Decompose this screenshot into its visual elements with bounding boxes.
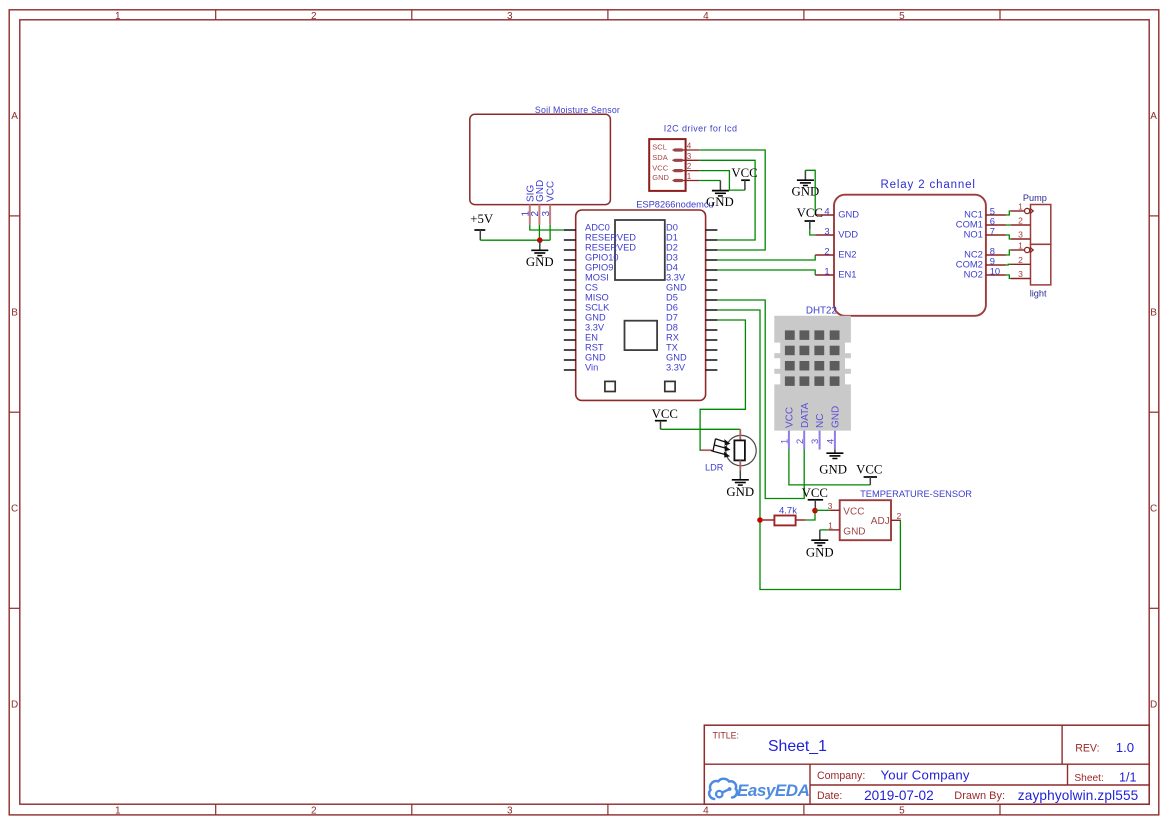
- svg-text:3: 3: [507, 11, 513, 22]
- svg-text:Relay 2 channel: Relay 2 channel: [881, 179, 976, 191]
- svg-text:SCL: SCL: [652, 143, 667, 152]
- ESP pin left Vin: [564, 362, 598, 372]
- pump/light pin 2: [1011, 216, 1031, 226]
- ground flag above relay: [792, 170, 820, 198]
- svg-text:3: 3: [687, 152, 692, 161]
- svg-text:7: 7: [990, 225, 995, 236]
- svg-text:2: 2: [824, 245, 829, 256]
- svg-text:3.3V: 3.3V: [666, 362, 686, 372]
- svg-text:A: A: [11, 111, 18, 122]
- svg-text:EN: EN: [585, 332, 598, 342]
- soil sensor pin 1 SIG: [521, 185, 537, 225]
- svg-text:1: 1: [687, 172, 692, 181]
- pump/light pin 3: [1011, 230, 1031, 240]
- ESP pin right TX: [666, 342, 717, 352]
- svg-text:B: B: [1150, 307, 1157, 318]
- svg-text:MISO: MISO: [585, 292, 609, 302]
- wire relay GND pin4 to ground flag: [805, 170, 815, 215]
- temp sensor pin 2 ADJ: [891, 511, 902, 521]
- I2C pin 3 SDA: [652, 152, 699, 162]
- wire NO1 to Pump 3: [1006, 235, 1011, 239]
- svg-text:GND: GND: [652, 173, 669, 182]
- relay pin 7 NO1: [964, 225, 1006, 239]
- svg-text:3: 3: [828, 501, 833, 511]
- svg-text:2: 2: [897, 511, 902, 521]
- relay pin 1 EN1: [815, 265, 856, 279]
- relay pin 6 COM1: [956, 215, 1006, 229]
- svg-text:GND: GND: [838, 208, 859, 219]
- temp sensor pin 1: [828, 521, 840, 531]
- svg-text:1: 1: [824, 265, 829, 276]
- svg-text:VCC: VCC: [785, 407, 796, 428]
- svg-text:B: B: [11, 307, 18, 318]
- ESP pin right GND: [666, 352, 717, 362]
- I2C pin 4 SCL: [652, 142, 699, 152]
- pump/light pin 1: [1011, 202, 1033, 214]
- svg-text:Your Company: Your Company: [881, 768, 970, 783]
- +5V power flag: [470, 212, 494, 240]
- svg-text:EN1: EN1: [838, 268, 856, 279]
- svg-text:3: 3: [1018, 269, 1023, 279]
- I2C pin 1 GND: [652, 172, 699, 182]
- wire ESP D4 to relay EN1: [717, 270, 815, 275]
- resistor R 4.7k: [761, 505, 805, 525]
- wire resistor right to VCC node: [805, 510, 815, 520]
- ESP pin left RESERVED: [564, 242, 636, 252]
- ESP pin right D0: [666, 222, 717, 232]
- wire COM1 to Pump 2: [1006, 224, 1011, 226]
- svg-text:VCC: VCC: [652, 163, 668, 172]
- svg-text:RST: RST: [585, 342, 604, 352]
- relay pin 5 NC1: [964, 205, 1006, 219]
- wire soil SIG to ESP ADC0: [530, 225, 564, 230]
- ESP pin right D7: [666, 312, 717, 322]
- svg-text:GND: GND: [726, 485, 754, 499]
- svg-text:3: 3: [541, 211, 552, 217]
- svg-text:VCC: VCC: [652, 407, 678, 421]
- wire NC2 to light 1: [1006, 250, 1011, 255]
- svg-text:D1: D1: [666, 232, 678, 242]
- ESP pin right 3.3V: [666, 362, 717, 372]
- EasyEDA logo: [709, 779, 809, 800]
- ESP pin left SCLK: [564, 302, 610, 312]
- svg-text:D5: D5: [666, 292, 678, 302]
- title block: [704, 725, 1149, 804]
- svg-text:GND: GND: [806, 546, 834, 560]
- wire I2C SCL to ESP D2: [699, 150, 765, 250]
- svg-text:4: 4: [825, 439, 836, 444]
- svg-text:LDR: LDR: [705, 462, 724, 472]
- svg-text:GND: GND: [535, 180, 546, 202]
- svg-text:DATA: DATA: [800, 402, 811, 428]
- svg-text:4: 4: [703, 806, 709, 817]
- ground flag below DHT: [819, 450, 847, 477]
- svg-text:4: 4: [703, 11, 709, 22]
- svg-text:GND: GND: [843, 526, 865, 537]
- ESP pin left EN: [564, 332, 598, 342]
- pump/light pin 3: [1011, 269, 1031, 279]
- svg-text:RESERVED: RESERVED: [585, 232, 636, 242]
- relay pin 8 NC2: [964, 245, 1006, 259]
- svg-text:GPIO10: GPIO10: [585, 252, 619, 262]
- wire DHT DATA to ESP D5: [717, 300, 804, 499]
- wire VCC flag to LDR top: [661, 428, 741, 430]
- connector I2C driver for lcd: [649, 124, 737, 191]
- relay pin 10 NO2: [964, 265, 1006, 279]
- svg-text:5: 5: [899, 806, 905, 817]
- svg-text:RESERVED: RESERVED: [585, 242, 636, 252]
- svg-text:Pump: Pump: [1023, 193, 1047, 203]
- wire DHT VCC to VCC flag: [789, 450, 870, 485]
- ESP pin right RX: [666, 332, 717, 342]
- connector light: [1030, 244, 1051, 298]
- wire I2C SDA to ESP D1: [699, 160, 755, 240]
- svg-text:Date:: Date:: [817, 790, 842, 802]
- svg-text:2019-07-02: 2019-07-02: [864, 788, 934, 803]
- svg-text:GND: GND: [585, 352, 606, 362]
- DHT22 pin 2 DATA: [794, 402, 811, 449]
- svg-text:light: light: [1030, 289, 1047, 299]
- svg-text:TITLE:: TITLE:: [713, 731, 739, 741]
- svg-text:zayphyolwin.zpl555: zayphyolwin.zpl555: [1018, 788, 1139, 803]
- ESP pin right D6: [666, 302, 717, 312]
- relay pin 3 VDD: [815, 225, 858, 239]
- svg-text:GPIO9: GPIO9: [585, 262, 613, 272]
- svg-text:D7: D7: [666, 312, 678, 322]
- relay pin 2 EN2: [815, 245, 856, 259]
- svg-text:2: 2: [530, 211, 541, 217]
- wire soil pin2 down to junction: [538, 225, 540, 241]
- svg-text:NC: NC: [815, 414, 826, 428]
- DHT22 pin 4 GND: [825, 406, 842, 450]
- svg-text:DHT22: DHT22: [806, 306, 837, 317]
- svg-text:Sheet:: Sheet:: [1074, 773, 1103, 784]
- wire temp sensor pin1 to ground: [820, 529, 829, 531]
- svg-text:GND: GND: [666, 352, 687, 362]
- wire ESP D3 to relay EN2: [717, 255, 815, 260]
- temperature sensor U?: [840, 489, 973, 540]
- svg-text:D3: D3: [666, 252, 678, 262]
- svg-text:1: 1: [1018, 202, 1023, 212]
- ESP pin left 3.3V: [564, 322, 605, 332]
- svg-text:VCC: VCC: [802, 486, 828, 500]
- relay pin 4 GND: [815, 205, 859, 219]
- svg-text:Vin: Vin: [585, 362, 598, 372]
- VCC flag near I2C: [731, 166, 757, 190]
- ground flag below LDR: [726, 470, 754, 499]
- svg-text:D2: D2: [666, 242, 678, 252]
- DHT22 pin 3 NC: [809, 414, 826, 450]
- svg-text:4: 4: [824, 205, 829, 216]
- svg-text:CS: CS: [585, 282, 598, 292]
- wire ESP D7 to LDR: [700, 320, 745, 450]
- svg-text:1: 1: [115, 11, 121, 22]
- photoresistor LDR: [701, 429, 756, 472]
- svg-text:C: C: [1150, 503, 1157, 514]
- ESP pin right 3.3V: [666, 272, 717, 282]
- ESP pin right D1: [666, 232, 717, 242]
- svg-text:5: 5: [899, 11, 905, 22]
- wire COM2 to light 2: [1006, 263, 1011, 266]
- svg-text:2: 2: [1018, 216, 1023, 226]
- soil sensor pin 2 GND: [530, 180, 546, 225]
- svg-text:1: 1: [779, 439, 790, 444]
- ESP pin right D3: [666, 252, 717, 262]
- svg-text:ADC0: ADC0: [585, 222, 610, 232]
- junction node VCC: [812, 508, 818, 514]
- svg-text:1.0: 1.0: [1116, 740, 1134, 755]
- svg-text:1: 1: [1018, 241, 1023, 251]
- VCC flag below DHT: [856, 462, 882, 485]
- svg-text:ADJ: ADJ: [871, 516, 890, 527]
- svg-text:A: A: [1150, 111, 1157, 122]
- svg-text:GND: GND: [526, 255, 554, 269]
- ground flag under soil sensor: [526, 240, 554, 269]
- wire NO2 to light 3: [1006, 275, 1011, 279]
- MCU U1 ESP8266nodemcu: [576, 200, 714, 401]
- svg-text:10: 10: [990, 265, 1000, 276]
- svg-text:3: 3: [1018, 230, 1023, 240]
- svg-text:NO1: NO1: [964, 228, 983, 239]
- pump/light pin 2: [1011, 255, 1031, 265]
- DHT22 pin 1 VCC: [779, 407, 796, 450]
- svg-text:2: 2: [1018, 255, 1023, 265]
- wire ESP D6 to resistor node and ADJ: [717, 310, 900, 590]
- svg-text:GND: GND: [706, 195, 734, 209]
- relay module Relay 2 channel: [834, 179, 986, 316]
- ESP pin left GPIO9: [564, 262, 614, 272]
- svg-text:NO2: NO2: [964, 268, 983, 279]
- relay pin 9 COM2: [956, 255, 1006, 269]
- svg-text:+5V: +5V: [470, 212, 494, 226]
- svg-text:2: 2: [794, 439, 805, 444]
- wire soil pin3 down: [549, 225, 551, 240]
- svg-text:1: 1: [828, 521, 833, 531]
- wire VCC flag to relay VDD pin3: [810, 229, 815, 235]
- svg-text:ESP8266nodemcu: ESP8266nodemcu: [636, 200, 714, 210]
- ESP pin left MOSI: [564, 272, 609, 282]
- svg-text:TEMPERATURE-SENSOR: TEMPERATURE-SENSOR: [860, 489, 972, 499]
- wire I2C GND pin: [699, 180, 720, 182]
- svg-text:SDA: SDA: [652, 153, 667, 162]
- svg-text:SCLK: SCLK: [585, 302, 610, 312]
- ESP pin right D2: [666, 242, 717, 252]
- svg-text:GND: GND: [819, 462, 847, 476]
- ground flag near I2C: [706, 181, 734, 209]
- svg-text:VDD: VDD: [838, 228, 858, 239]
- ESP pin right D5: [666, 292, 717, 302]
- svg-text:1/1: 1/1: [1119, 770, 1137, 784]
- svg-text:3.3V: 3.3V: [666, 272, 686, 282]
- wire NC1 to Pump 1: [1006, 211, 1011, 215]
- svg-text:EasyEDA: EasyEDA: [737, 781, 810, 800]
- svg-text:RX: RX: [666, 332, 679, 342]
- connector Pump: [1023, 193, 1051, 244]
- VCC flag above temp sensor: [802, 486, 828, 508]
- svg-text:D8: D8: [666, 322, 678, 332]
- svg-text:VCC: VCC: [843, 506, 864, 517]
- svg-text:Drawn By:: Drawn By:: [954, 790, 1005, 802]
- sensor DHT22: [774, 306, 852, 431]
- connector J? Soil Moisture Sensor: [470, 105, 620, 205]
- ESP pin right D4: [666, 262, 717, 272]
- temp sensor pin 3: [828, 501, 840, 511]
- svg-text:1: 1: [115, 806, 121, 817]
- svg-text:VCC: VCC: [797, 206, 823, 220]
- svg-text:3.3V: 3.3V: [585, 322, 605, 332]
- svg-text:VCC: VCC: [546, 181, 557, 202]
- ESP pin left GND: [564, 352, 606, 362]
- svg-text:2: 2: [687, 162, 692, 171]
- svg-text:C: C: [11, 503, 18, 514]
- ESP pin left ADC0: [564, 222, 610, 232]
- soil sensor pin 3 VCC: [541, 181, 557, 225]
- svg-text:D: D: [1150, 700, 1157, 711]
- svg-text:4: 4: [687, 142, 692, 151]
- svg-text:MOSI: MOSI: [585, 272, 609, 282]
- ESP pin left GPIO10: [564, 252, 619, 262]
- wire VCC node to temp sensor pin3: [815, 509, 830, 511]
- junction node: [537, 237, 543, 243]
- svg-text:D6: D6: [666, 302, 678, 312]
- VCC flag left of relay: [797, 206, 823, 229]
- ESP pin left GND: [564, 312, 606, 322]
- svg-text:Soil Moisture Sensor: Soil Moisture Sensor: [535, 105, 620, 115]
- svg-text:3: 3: [507, 806, 513, 817]
- svg-text:3: 3: [824, 225, 829, 236]
- ground flag below temp sensor: [806, 530, 834, 560]
- wire +5V to soil VCC: [480, 239, 550, 241]
- svg-text:EN2: EN2: [838, 248, 856, 259]
- svg-text:2: 2: [311, 11, 317, 22]
- svg-text:TX: TX: [666, 342, 678, 352]
- svg-text:GND: GND: [666, 282, 687, 292]
- svg-text:Sheet_1: Sheet_1: [768, 738, 827, 755]
- VCC flag below ESP: [652, 407, 678, 430]
- junction node resistor left: [757, 517, 763, 523]
- ESP pin left RESERVED: [564, 232, 636, 242]
- svg-text:GND: GND: [831, 406, 842, 428]
- svg-text:VCC: VCC: [856, 462, 882, 476]
- ESP pin right D8: [666, 322, 717, 332]
- I2C pin 2 VCC: [652, 162, 699, 172]
- svg-text:D4: D4: [666, 262, 678, 272]
- ESP pin right GND: [666, 282, 717, 292]
- pump/light pin 1: [1011, 241, 1033, 253]
- svg-text:3: 3: [809, 439, 820, 444]
- svg-text:GND: GND: [585, 312, 606, 322]
- svg-text:Company:: Company:: [817, 770, 865, 782]
- svg-text:2: 2: [311, 806, 317, 817]
- ESP pin left MISO: [564, 292, 609, 302]
- ESP pin left CS: [564, 282, 598, 292]
- svg-text:REV:: REV:: [1075, 743, 1099, 755]
- svg-text:D0: D0: [666, 222, 678, 232]
- svg-text:D: D: [11, 700, 18, 711]
- wire I2C VCC pin to VCC flag: [699, 171, 745, 191]
- ESP pin left RST: [564, 342, 604, 352]
- svg-text:VCC: VCC: [731, 166, 757, 180]
- svg-text:I2C driver for lcd: I2C driver for lcd: [664, 124, 738, 134]
